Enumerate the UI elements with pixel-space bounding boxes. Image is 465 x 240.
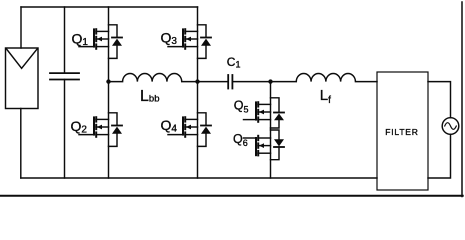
node junction right leg mid xyxy=(195,79,199,83)
wire Q5/Q6 branch xyxy=(270,82,272,178)
transistor Q5 xyxy=(244,98,285,128)
wire mid to C1 xyxy=(198,81,229,83)
border bottom xyxy=(0,195,463,197)
inductor Lbb xyxy=(109,73,198,81)
ac source (grid) xyxy=(442,118,459,135)
wire cap top xyxy=(64,7,66,73)
transistor Q2 xyxy=(79,113,122,147)
wire top rail xyxy=(21,6,198,8)
capacitor input (dc link) xyxy=(50,73,79,79)
capacitor C1 xyxy=(228,75,232,89)
wire bottom rail xyxy=(21,177,377,179)
wire cap bottom xyxy=(64,80,66,179)
transistor Q4 xyxy=(168,113,211,147)
wire C1 to Q5 node xyxy=(232,81,270,83)
border right xyxy=(461,2,463,197)
node junction Q5 branch xyxy=(268,79,272,83)
wire right bridge leg xyxy=(197,7,199,178)
wire PV bottom to bottom rail xyxy=(20,109,22,179)
transistor Q1 xyxy=(79,25,122,59)
transistor Q3 xyxy=(168,25,211,59)
wire PV top to rail xyxy=(20,7,22,48)
wire filter to source top xyxy=(428,82,451,118)
wire left bridge leg xyxy=(108,7,110,178)
solar panel PV source xyxy=(6,48,39,109)
wire filter to source bottom xyxy=(428,134,451,178)
transistor Q6 (mirrored) xyxy=(244,130,285,160)
inductor Lf xyxy=(271,74,378,82)
svg-text:FILTER: FILTER xyxy=(385,127,418,137)
filter block xyxy=(377,72,428,190)
node junction left leg mid xyxy=(106,79,110,83)
